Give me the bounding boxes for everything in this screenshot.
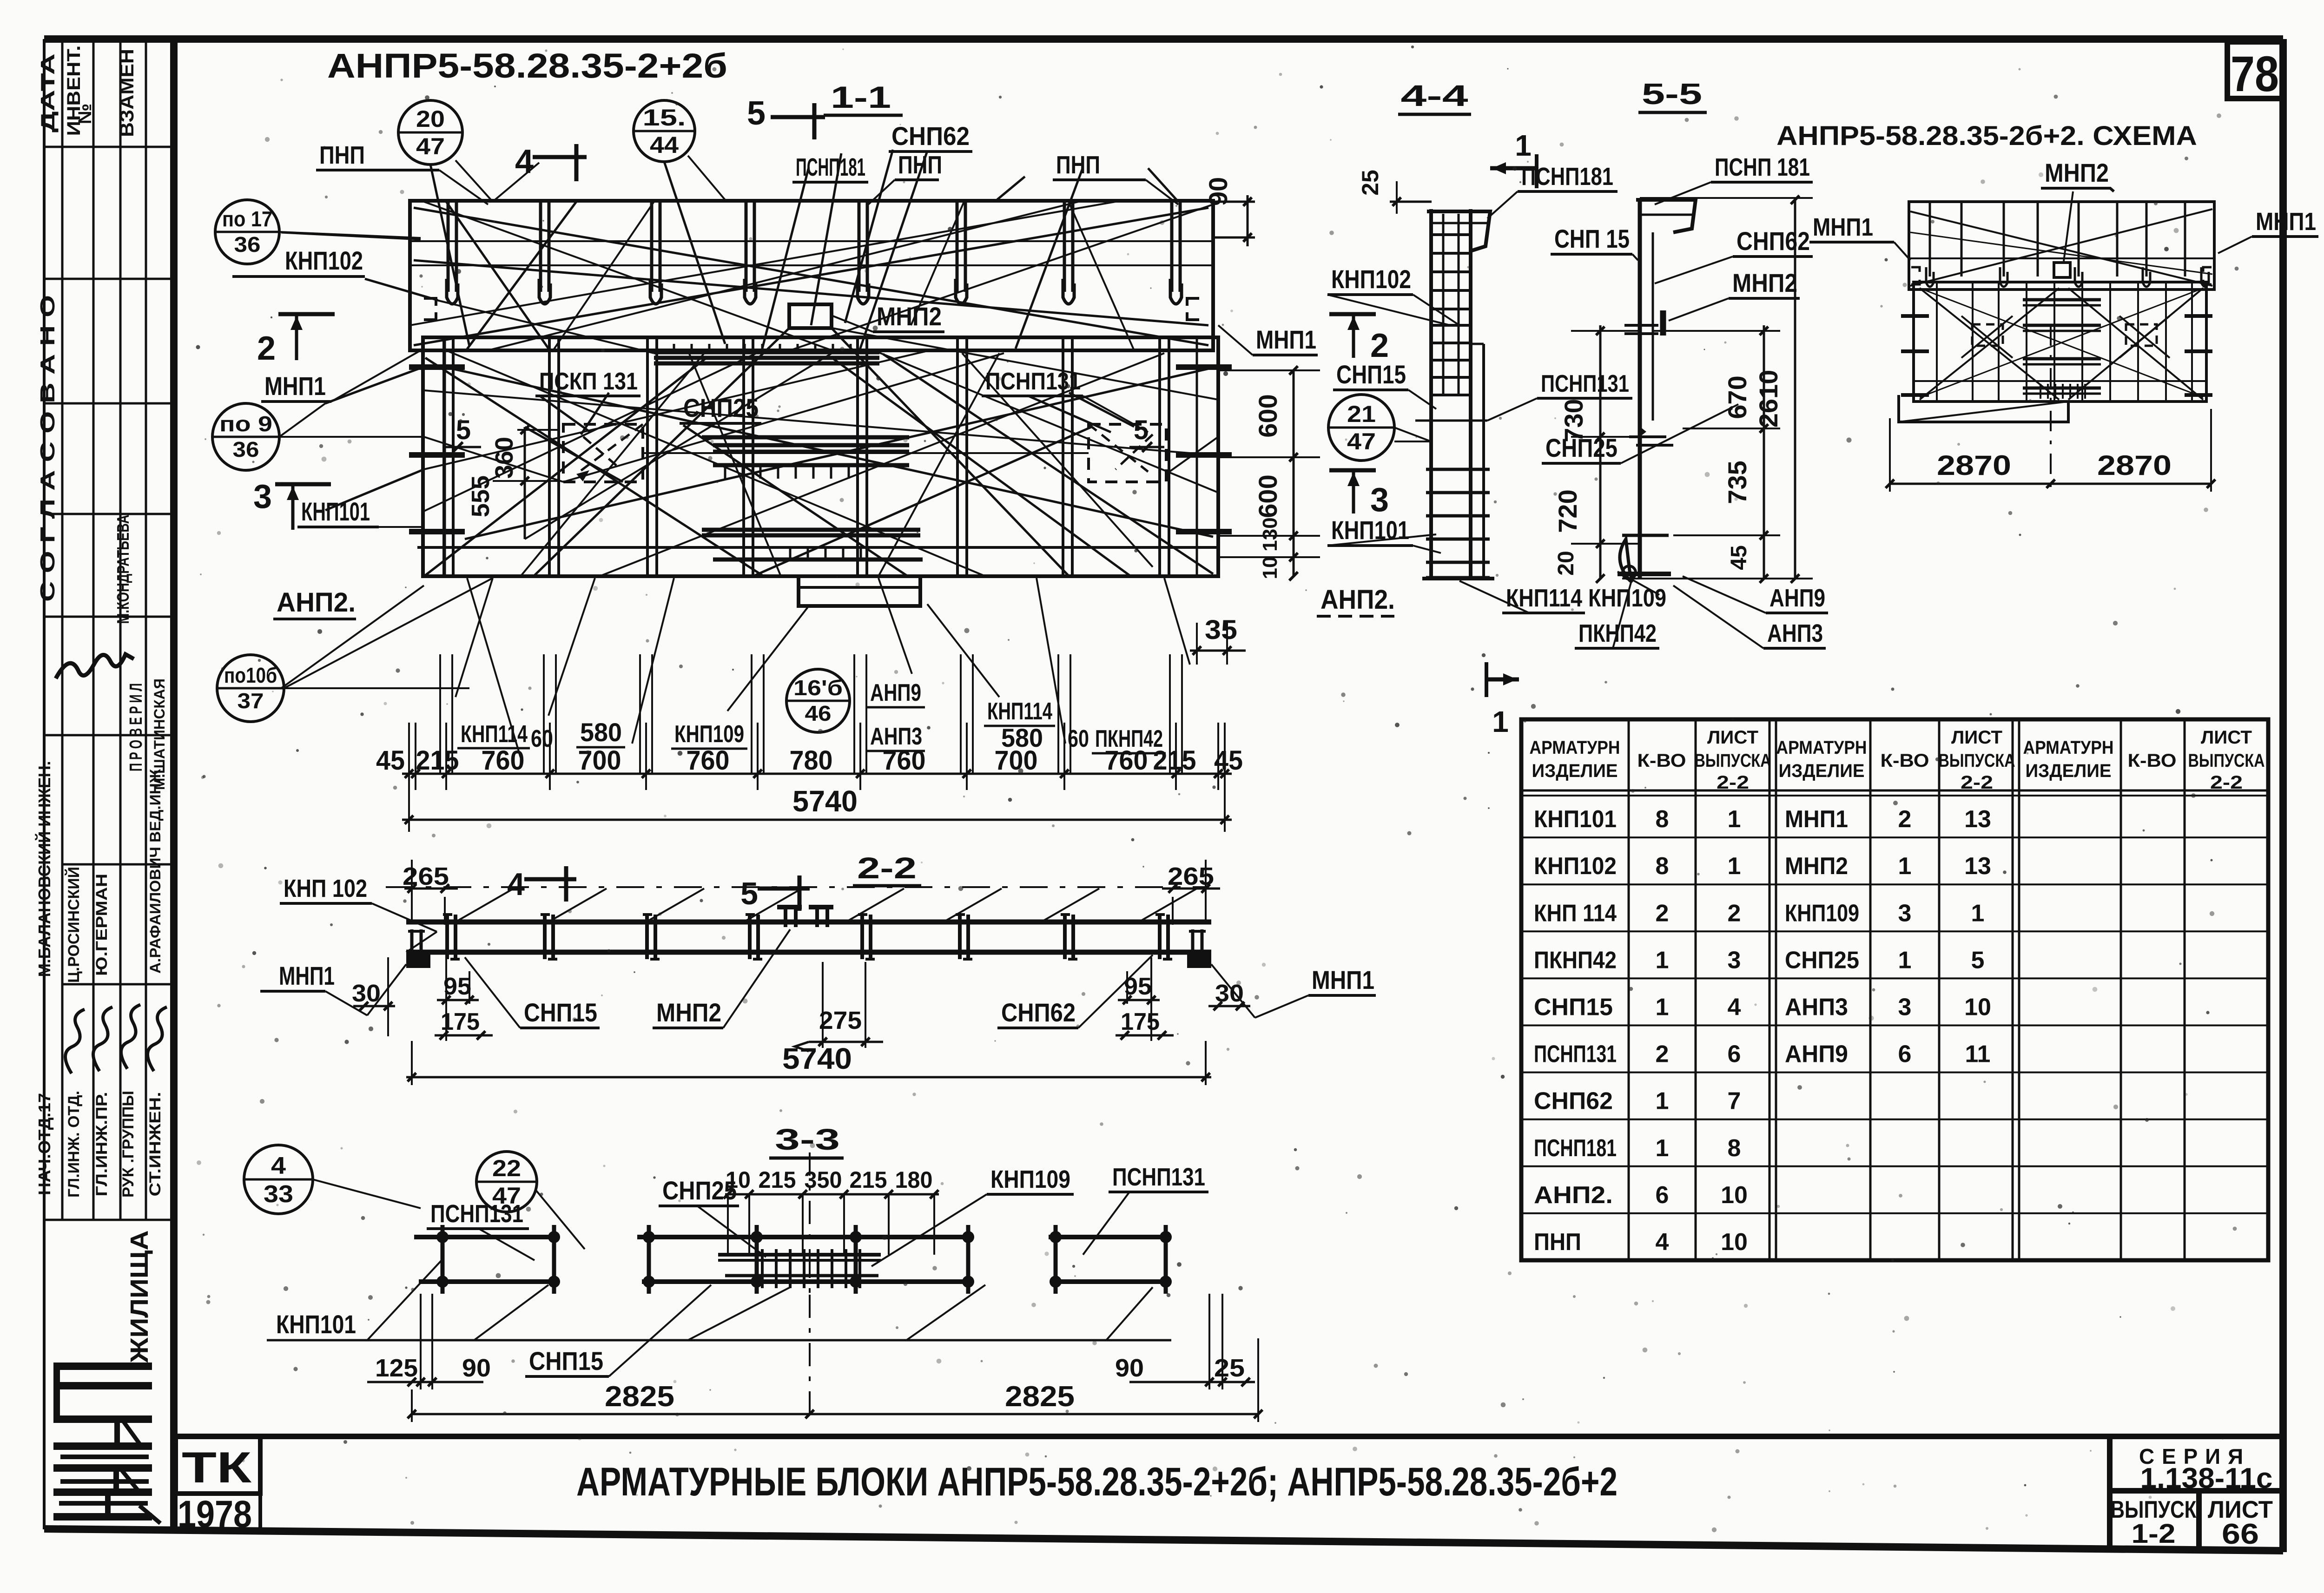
svg-text:66: 66 [2222, 1518, 2259, 1550]
svg-text:АРМАТУРНЫЕ БЛОКИ АНПР5-58.28: АРМАТУРНЫЕ БЛОКИ АНПР5-58.28.35-2+2б; АН… [576, 1460, 1618, 1504]
svg-text:580: 580 [580, 718, 622, 747]
svg-text:37: 37 [238, 689, 264, 713]
svg-text:2870: 2870 [1937, 450, 2011, 481]
svg-text:СНП62: СНП62 [1001, 998, 1076, 1027]
svg-text:5740: 5740 [792, 784, 858, 818]
svg-text:5: 5 [740, 876, 758, 911]
svg-text:600: 600 [1253, 394, 1282, 437]
svg-text:КНП109: КНП109 [674, 721, 744, 748]
svg-text:МНП2: МНП2 [1785, 853, 1848, 880]
svg-text:6: 6 [1728, 1041, 1741, 1068]
svg-text:11: 11 [1965, 1041, 1991, 1068]
svg-text:ПСНП131: ПСНП131 [1534, 1041, 1617, 1068]
svg-text:АРМАТУРН: АРМАТУРН [2023, 737, 2114, 758]
svg-text:3: 3 [253, 478, 272, 515]
svg-text:600: 600 [1253, 474, 1282, 518]
svg-text:Ц.РОСИНСКИЙ: Ц.РОСИНСКИЙ [65, 867, 83, 983]
svg-text:700: 700 [995, 745, 1038, 776]
svg-text:К-ВО: К-ВО [1881, 750, 1929, 771]
svg-text:5740: 5740 [782, 1042, 852, 1075]
svg-text:ПСНП131: ПСНП131 [1112, 1163, 1205, 1191]
svg-text:2610: 2610 [1754, 370, 1783, 428]
svg-text:ЖИЛИЩА: ЖИЛИЩА [125, 1231, 153, 1363]
svg-text:КНП102: КНП102 [1534, 853, 1617, 880]
svg-text:АНПР5-58.28.35-2+2б: АНПР5-58.28.35-2+2б [327, 46, 727, 85]
svg-text:СНП 15: СНП 15 [1554, 224, 1630, 253]
svg-text:КНП 102: КНП 102 [284, 875, 367, 902]
svg-text:60: 60 [531, 725, 553, 752]
svg-text:4-4: 4-4 [1401, 79, 1469, 112]
svg-text:МНП1: МНП1 [264, 371, 326, 401]
svg-text:13: 13 [1964, 806, 1991, 833]
svg-text:ПНП: ПНП [1534, 1229, 1581, 1256]
svg-text:2-2: 2-2 [857, 851, 917, 885]
svg-text:КНП 114: КНП 114 [1534, 900, 1617, 927]
svg-text:2825: 2825 [1005, 1381, 1075, 1413]
svg-text:СТ.ИНЖЕН.: СТ.ИНЖЕН. [146, 1092, 164, 1197]
svg-text:46: 46 [805, 701, 832, 725]
svg-text:№: № [75, 104, 95, 125]
svg-text:СНП15: СНП15 [1534, 994, 1613, 1021]
svg-text:5: 5 [1971, 947, 1985, 974]
svg-text:ВЫПУСКА: ВЫПУСКА [2188, 750, 2265, 771]
svg-text:1: 1 [1656, 994, 1669, 1021]
svg-text:130: 130 [1259, 517, 1281, 551]
svg-text:СНП62: СНП62 [1736, 226, 1810, 256]
svg-text:730: 730 [1559, 399, 1588, 442]
svg-text:1: 1 [1971, 900, 1985, 927]
svg-text:МНП1: МНП1 [1813, 213, 1873, 241]
svg-text:60: 60 [1068, 725, 1089, 752]
svg-text:МНП2: МНП2 [656, 998, 721, 1027]
svg-text:АРМАТУРН: АРМАТУРН [1530, 737, 1620, 758]
svg-text:по10б: по10б [224, 663, 277, 687]
svg-text:36: 36 [234, 232, 261, 257]
svg-text:1978: 1978 [178, 1493, 252, 1535]
svg-text:16'б: 16'б [793, 676, 843, 700]
svg-text:ИЗДЕЛИЕ: ИЗДЕЛИЕ [1532, 761, 1618, 781]
svg-text:М.БАЛАНОВСКИЙ ИНЖЕН.: М.БАЛАНОВСКИЙ ИНЖЕН. [34, 761, 54, 977]
svg-text:СНП25: СНП25 [1785, 947, 1859, 974]
svg-text:20: 20 [1554, 551, 1578, 575]
svg-text:215: 215 [759, 1167, 796, 1193]
svg-text:2: 2 [1898, 806, 1912, 833]
svg-text:АНП2.: АНП2. [1534, 1182, 1613, 1209]
svg-text:2: 2 [1656, 900, 1669, 927]
svg-text:8: 8 [1728, 1135, 1741, 1162]
svg-text:45: 45 [1214, 745, 1243, 776]
svg-text:МНП1: МНП1 [1312, 965, 1374, 994]
svg-text:МНП1: МНП1 [2256, 208, 2316, 236]
svg-text:АНП3: АНП3 [1767, 619, 1823, 647]
svg-text:760: 760 [883, 745, 926, 776]
svg-text:3: 3 [1728, 947, 1741, 974]
svg-text:25: 25 [1214, 1354, 1245, 1382]
svg-text:КНП101: КНП101 [1534, 806, 1617, 833]
svg-text:по 9: по 9 [219, 412, 272, 436]
svg-text:ПСНП181: ПСНП181 [796, 153, 865, 181]
svg-text:555: 555 [467, 475, 495, 517]
svg-text:10: 10 [1259, 557, 1281, 579]
svg-text:А.РАФАИЛОВИЧ ВЕД.ИНЖ: А.РАФАИЛОВИЧ ВЕД.ИНЖ [147, 769, 164, 974]
svg-text:45: 45 [376, 745, 405, 776]
svg-text:ЛИСТ: ЛИСТ [1707, 727, 1758, 748]
svg-text:КНП102: КНП102 [285, 246, 363, 275]
svg-text:КНП102: КНП102 [1331, 264, 1411, 294]
svg-text:5: 5 [1134, 415, 1149, 445]
svg-text:35: 35 [1205, 615, 1237, 645]
svg-text:33: 33 [264, 1181, 293, 1208]
svg-text:ЛИСТ: ЛИСТ [1951, 727, 2002, 748]
svg-text:1: 1 [1656, 1135, 1669, 1162]
svg-text:ПКНП42: ПКНП42 [1534, 947, 1617, 974]
svg-text:2-2: 2-2 [1961, 772, 1993, 793]
svg-text:КНП114: КНП114 [461, 721, 528, 748]
svg-text:2: 2 [1656, 1041, 1669, 1068]
svg-text:1: 1 [1656, 1088, 1669, 1115]
svg-text:АНП9: АНП9 [1785, 1041, 1848, 1068]
svg-text:ВЫПУСКА: ВЫПУСКА [1939, 750, 2015, 771]
svg-text:АНП2.: АНП2. [1320, 585, 1395, 615]
svg-text:20: 20 [416, 106, 445, 132]
svg-text:90: 90 [1115, 1354, 1144, 1382]
svg-text:2: 2 [1728, 900, 1741, 927]
svg-text:ПНП: ПНП [1056, 151, 1100, 179]
svg-text:180: 180 [895, 1167, 933, 1193]
svg-text:90: 90 [462, 1354, 491, 1382]
svg-text:13: 13 [1964, 853, 1991, 880]
svg-text:ВЫПУСКА: ВЫПУСКА [1695, 750, 1771, 771]
svg-text:по 17: по 17 [222, 207, 272, 231]
svg-text:8: 8 [1656, 806, 1669, 833]
svg-text:1: 1 [1898, 853, 1912, 880]
svg-text:СНП62: СНП62 [891, 121, 970, 151]
svg-text:ПСНП 181: ПСНП 181 [1715, 153, 1810, 181]
svg-text:РУК .ГРУППЫ: РУК .ГРУППЫ [119, 1091, 137, 1198]
svg-text:ИЗДЕЛИЕ: ИЗДЕЛИЕ [2026, 761, 2112, 781]
svg-text:СНП15: СНП15 [524, 998, 597, 1027]
svg-text:КНП101: КНП101 [276, 1310, 356, 1339]
svg-text:МНП1: МНП1 [279, 961, 335, 990]
svg-text:10: 10 [1721, 1229, 1748, 1256]
svg-text:8: 8 [1656, 853, 1669, 880]
svg-text:1: 1 [1656, 947, 1669, 974]
svg-text:760: 760 [482, 745, 525, 776]
svg-text:ТК: ТК [182, 1443, 252, 1492]
svg-text:22: 22 [492, 1155, 521, 1181]
svg-text:2-2: 2-2 [2210, 772, 2243, 793]
svg-text:7: 7 [1728, 1088, 1741, 1115]
svg-text:1: 1 [1515, 129, 1532, 162]
svg-text:25: 25 [1357, 170, 1383, 196]
svg-text:760: 760 [687, 745, 730, 776]
svg-text:4: 4 [1728, 994, 1741, 1021]
svg-text:1: 1 [1728, 806, 1741, 833]
svg-text:21: 21 [1347, 401, 1376, 427]
svg-text:ПСНП131: ПСНП131 [1541, 370, 1629, 397]
svg-text:125: 125 [375, 1354, 418, 1382]
svg-text:760: 760 [1105, 745, 1148, 776]
svg-text:ПНП: ПНП [898, 151, 942, 179]
svg-text:36: 36 [233, 437, 259, 461]
svg-text:1-2: 1-2 [2132, 1519, 2176, 1549]
svg-text:КНП101: КНП101 [1331, 515, 1409, 545]
svg-text:СНП15: СНП15 [529, 1346, 603, 1376]
svg-text:АНП2.: АНП2. [277, 587, 356, 618]
svg-text:1: 1 [1898, 947, 1912, 974]
svg-text:АНП9: АНП9 [870, 679, 921, 706]
svg-text:1: 1 [1728, 853, 1741, 880]
svg-text:95: 95 [443, 973, 471, 1000]
svg-text:1-1: 1-1 [831, 80, 891, 114]
svg-text:СНП15: СНП15 [1336, 360, 1406, 389]
svg-text:10: 10 [1721, 1182, 1748, 1209]
svg-text:4: 4 [507, 867, 525, 902]
svg-text:275: 275 [819, 1007, 862, 1034]
svg-text:2: 2 [257, 330, 276, 367]
svg-text:1: 1 [1492, 705, 1509, 738]
svg-text:78: 78 [2231, 46, 2279, 102]
svg-text:215: 215 [416, 745, 459, 776]
svg-text:3: 3 [1898, 900, 1912, 927]
svg-text:780: 780 [790, 745, 833, 776]
svg-text:2870: 2870 [2097, 450, 2172, 481]
svg-text:Ю.ГЕРМАН: Ю.ГЕРМАН [93, 874, 111, 976]
svg-text:АНП9: АНП9 [1769, 584, 1825, 612]
svg-text:720: 720 [1553, 489, 1582, 533]
svg-text:КНП101: КНП101 [301, 497, 370, 526]
svg-text:ПСНП131: ПСНП131 [430, 1200, 523, 1228]
svg-text:ЛИСТ: ЛИСТ [2201, 727, 2252, 748]
svg-text:5: 5 [456, 415, 471, 445]
svg-text:215: 215 [850, 1167, 887, 1193]
svg-text:ПНП: ПНП [319, 141, 365, 169]
svg-text:47: 47 [1347, 428, 1376, 454]
svg-text:МНП1: МНП1 [1256, 325, 1316, 354]
svg-text:6: 6 [1656, 1182, 1669, 1209]
svg-text:КНП109: КНП109 [990, 1165, 1070, 1193]
svg-text:АНПР5-58.28.35-2б+2. СХЕМА: АНПР5-58.28.35-2б+2. СХЕМА [1776, 121, 2197, 151]
svg-text:10: 10 [726, 1167, 751, 1193]
svg-text:К-ВО: К-ВО [1637, 750, 1686, 771]
svg-text:2: 2 [1370, 327, 1389, 364]
svg-text:НАЧ.ОТД.17: НАЧ.ОТД.17 [35, 1093, 54, 1195]
svg-text:М.КОНДРАТЬЕВА: М.КОНДРАТЬЕВА [113, 515, 132, 624]
svg-text:ИЗДЕЛИЕ: ИЗДЕЛИЕ [1779, 761, 1865, 781]
svg-text:ГЛ.ИНЖ.ПР.: ГЛ.ИНЖ.ПР. [93, 1092, 111, 1197]
svg-text:44: 44 [650, 132, 679, 158]
svg-text:670: 670 [1723, 375, 1752, 419]
svg-text:СНП62: СНП62 [1534, 1088, 1613, 1115]
svg-text:3-3: 3-3 [775, 1123, 840, 1156]
svg-text:4: 4 [1656, 1229, 1669, 1256]
svg-text:2-2: 2-2 [1717, 772, 1749, 793]
svg-text:4: 4 [515, 143, 534, 180]
svg-text:СНП25: СНП25 [683, 393, 759, 422]
svg-text:4: 4 [271, 1152, 286, 1179]
svg-text:П Р О В Е Р И Л: П Р О В Е Р И Л [126, 683, 146, 771]
svg-text:2825: 2825 [605, 1381, 674, 1413]
svg-text:ГЛ.ИНЖ. ОТД.: ГЛ.ИНЖ. ОТД. [65, 1091, 83, 1198]
svg-text:215: 215 [1153, 745, 1196, 776]
svg-text:700: 700 [578, 745, 621, 776]
svg-text:АНП3: АНП3 [1785, 994, 1848, 1021]
svg-text:45: 45 [1727, 545, 1751, 570]
svg-text:5-5: 5-5 [1642, 77, 1702, 111]
svg-text:С О Г Л А С О В А Н О: С О Г Л А С О В А Н О [36, 295, 59, 602]
svg-text:КНП114: КНП114 [987, 698, 1052, 725]
svg-text:10: 10 [1964, 994, 1991, 1021]
svg-text:ПСНП181: ПСНП181 [1521, 163, 1613, 191]
svg-text:ПСНП181: ПСНП181 [1534, 1135, 1617, 1162]
svg-text:6: 6 [1898, 1041, 1912, 1068]
svg-text:К-ВО: К-ВО [2128, 750, 2177, 771]
svg-text:АРМАТУРН: АРМАТУРН [1776, 737, 1867, 758]
svg-text:3: 3 [1370, 481, 1389, 519]
svg-text:5: 5 [747, 95, 766, 132]
svg-text:3: 3 [1898, 994, 1912, 1021]
svg-text:175: 175 [1121, 1008, 1160, 1035]
svg-text:МНП2: МНП2 [2045, 158, 2109, 187]
svg-text:КНП109: КНП109 [1785, 900, 1859, 927]
svg-text:ДАТА: ДАТА [37, 53, 59, 132]
svg-text:15.: 15. [643, 105, 686, 131]
svg-text:ВЗАМЕН: ВЗАМЕН [116, 49, 138, 137]
svg-text:1.138-11с: 1.138-11с [2140, 1462, 2273, 1494]
svg-text:МНП1: МНП1 [1785, 806, 1848, 833]
svg-text:47: 47 [416, 133, 445, 159]
svg-text:735: 735 [1723, 461, 1752, 504]
